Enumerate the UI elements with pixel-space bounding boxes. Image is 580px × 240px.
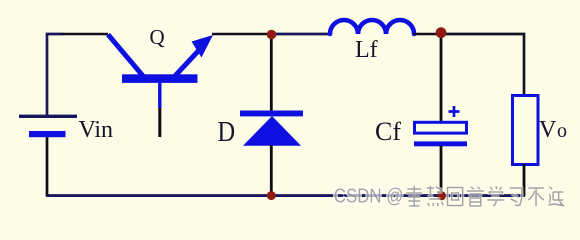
svg-text:D: D — [218, 115, 236, 147]
battery Vin positive plate — [19, 115, 77, 118]
base lead (blue part) — [158, 82, 161, 108]
wire: Vin - terminal to bottom rail — [46, 136, 49, 196]
transistor Q — [108, 35, 213, 109]
wire: Cf bottom lead — [440, 146, 443, 196]
pseudo CJK glyph 首 — [467, 187, 484, 206]
diode D triangle — [243, 116, 301, 146]
wire: Cf top lead — [440, 33, 443, 122]
emitter lead diagonal — [174, 48, 201, 77]
pseudo CJK glyph 迟 — [549, 187, 565, 206]
node: switch/diode top junction — [267, 30, 277, 40]
capacitor Cf positive plate (hollow) — [415, 122, 467, 133]
inductor Lf — [330, 20, 414, 34]
wire: base drive stub — [158, 108, 161, 137]
collector lead diagonal — [108, 35, 143, 77]
wire: Vo bottom lead — [523, 164, 526, 196]
battery Vin negative plate — [29, 131, 66, 137]
wire: top rail from Lf to Cf node — [414, 33, 441, 36]
pseudo CJK glyph 然 — [427, 186, 444, 206]
pseudo CJK glyph 回 — [447, 188, 462, 206]
node: diode bottom junction — [267, 191, 276, 200]
svg-text:CSDN @: CSDN @ — [334, 186, 404, 208]
wire: diode anode-node to cathode bar — [270, 34, 273, 111]
wire: top rail from Cf node to right corner, down to Vo — [441, 34, 524, 96]
emitter arrowhead — [192, 35, 214, 58]
wire: top rail toward Q collector — [62, 33, 108, 36]
svg-text:Q: Q — [150, 25, 165, 49]
polarity + mark — [449, 106, 460, 117]
node: Lf/Cf top junction — [436, 27, 447, 38]
node: Cf bottom junction — [437, 191, 446, 200]
watermark CSDN @... — [334, 186, 564, 208]
load resistor Vo — [513, 96, 539, 165]
pseudo CJK glyph 学 — [488, 186, 505, 206]
wire: top rail from diode node to Lf — [271, 33, 331, 36]
wire: diode bottom lead — [270, 145, 273, 196]
svg-text:Lf: Lf — [355, 37, 378, 63]
pseudo CJK glyph 习 — [510, 188, 522, 206]
capacitor Cf negative plate — [414, 141, 467, 146]
pseudo CJK glyph 不 — [528, 188, 544, 206]
wire: left vertical from top rail to Vin + terminal — [47, 34, 63, 116]
svg-text:Vin: Vin — [79, 117, 114, 143]
wire: bottom return rail — [46, 194, 525, 197]
wire: top rail from Q emitter to diode node — [212, 33, 271, 36]
pseudo CJK glyph 蓦 — [406, 186, 422, 206]
svg-text:V: V — [539, 117, 557, 143]
diode D cathode bar — [240, 111, 303, 117]
svg-text:Cf: Cf — [375, 117, 401, 146]
svg-text:o: o — [557, 120, 567, 142]
base bar — [122, 74, 198, 83]
